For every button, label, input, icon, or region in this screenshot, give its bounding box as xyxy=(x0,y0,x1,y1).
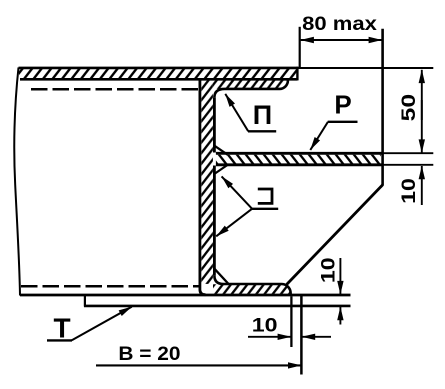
svg-text:10: 10 xyxy=(399,178,420,204)
svg-text:Т: Т xyxy=(53,313,70,344)
svg-text:50: 50 xyxy=(398,94,420,121)
svg-text:Р: Р xyxy=(334,90,351,120)
svg-text:В = 20: В = 20 xyxy=(118,344,180,365)
svg-text:10: 10 xyxy=(252,315,278,336)
svg-text:10: 10 xyxy=(319,257,340,283)
svg-text:80 max: 80 max xyxy=(302,13,377,34)
svg-text:П: П xyxy=(253,100,272,130)
